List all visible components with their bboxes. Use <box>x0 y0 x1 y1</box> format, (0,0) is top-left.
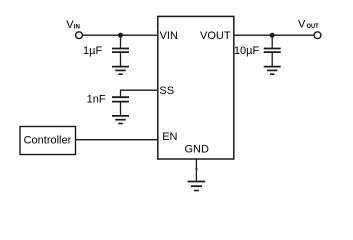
svg-text:1µF: 1µF <box>83 45 102 57</box>
wire C1 to ground <box>120 52 122 67</box>
svg-text:Controller: Controller <box>24 135 72 147</box>
svg-text:1nF: 1nF <box>87 93 106 105</box>
svg-text:V: V <box>298 19 306 31</box>
wire U1 SS pin to C2 <box>121 90 158 97</box>
wire controller to U1 EN pin <box>76 139 158 141</box>
node VIN label <box>66 19 80 31</box>
wire U1 GND pin down <box>195 159 197 182</box>
node VIN terminal <box>76 32 83 39</box>
capacitor C2 <box>112 97 129 101</box>
ground below U1 GND <box>188 182 206 191</box>
node junction on VOUT wire <box>270 33 275 38</box>
wire junction down to C1 <box>120 35 122 48</box>
wire U1 VOUT pin to VOUT terminal <box>234 34 314 36</box>
capacitor C3 <box>264 49 281 53</box>
op-amp U1 (regulator IC body) <box>158 16 234 159</box>
svg-text:EN: EN <box>162 131 177 143</box>
pin tick on GND stub <box>195 168 198 170</box>
svg-text:10µF: 10µF <box>234 45 260 57</box>
node junction on VIN wire <box>118 33 123 38</box>
ground below C3 <box>264 67 281 75</box>
svg-text:IN: IN <box>74 23 80 30</box>
node VOUT terminal <box>314 32 321 39</box>
svg-text:GND: GND <box>185 143 210 155</box>
wire junction down to C3 <box>271 35 273 48</box>
ground below C2 <box>112 116 129 124</box>
wire C2 to ground <box>120 102 122 116</box>
wire VIN terminal to U1 VIN pin <box>83 34 158 36</box>
controller block <box>20 127 76 155</box>
capacitor C1 <box>112 49 129 53</box>
svg-text:OUT: OUT <box>307 23 320 30</box>
wire C3 to ground <box>271 52 273 67</box>
ground below C1 <box>112 67 129 75</box>
node VOUT label <box>298 19 319 31</box>
svg-text:SS: SS <box>159 85 174 97</box>
svg-text:VOUT: VOUT <box>200 30 231 42</box>
svg-text:VIN: VIN <box>160 30 178 42</box>
